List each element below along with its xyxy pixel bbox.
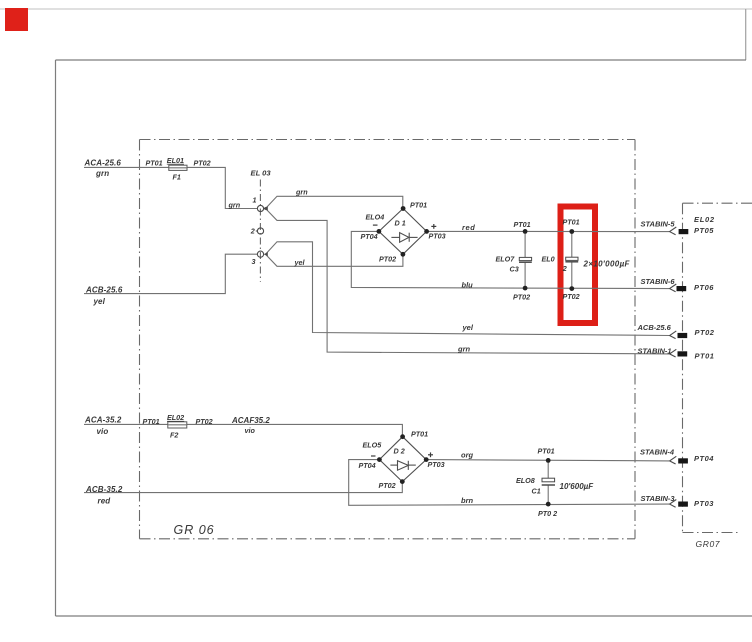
wire D1 + output red row bbox=[427, 230, 670, 232]
node PT03 of D2 bbox=[424, 457, 429, 462]
wire ACB-35.2 red input to D2 PT02 bbox=[84, 482, 402, 493]
svg-text:PT02: PT02 bbox=[379, 255, 396, 264]
svg-text:C3: C3 bbox=[510, 265, 519, 274]
svg-text:D 2: D 2 bbox=[394, 447, 405, 456]
terminal PT03 bbox=[678, 502, 688, 507]
svg-text:org: org bbox=[461, 451, 474, 460]
svg-text:vio: vio bbox=[97, 427, 109, 436]
wire capacitor EL08 bottom lead bbox=[547, 486, 549, 505]
svg-text:blu: blu bbox=[462, 280, 474, 289]
svg-text:STABIN-4: STABIN-4 bbox=[640, 448, 675, 457]
node PT03 of D1 bbox=[424, 229, 429, 234]
svg-text:PT0 2: PT0 2 bbox=[538, 509, 557, 518]
node PT01 on red row at EL07 bbox=[523, 229, 528, 234]
diode inside D1 bbox=[391, 236, 399, 238]
wire ACA-35.2 vio input to D2 PT01 bbox=[84, 424, 402, 436]
connector arrow STABIN-3 bbox=[670, 500, 677, 508]
terminal PT02 bbox=[678, 333, 688, 338]
svg-text:10'600µF: 10'600µF bbox=[560, 482, 595, 491]
svg-text:EL0: EL0 bbox=[542, 254, 555, 263]
svg-text:grn: grn bbox=[457, 345, 471, 354]
svg-text:ACB-25.6: ACB-25.6 bbox=[85, 285, 123, 294]
minus sign at D2 PT04 bbox=[371, 455, 376, 457]
wire fork1 upper grn to D1 PT01 bbox=[266, 196, 403, 208]
node PT02 on brn row at EL08 bbox=[546, 502, 551, 507]
capacitor EL06 / C2 (highlighted) bbox=[566, 257, 578, 260]
svg-text:PT01: PT01 bbox=[411, 430, 428, 439]
connector EL03 contact 3 bbox=[257, 251, 263, 257]
node PT02 on blu row at EL07 bbox=[523, 286, 528, 291]
svg-text:STABIN-1: STABIN-1 bbox=[638, 347, 672, 356]
svg-text:C1: C1 bbox=[532, 487, 541, 496]
connector arrow STABIN-4 bbox=[670, 456, 677, 464]
svg-text:grn: grn bbox=[95, 169, 109, 178]
svg-text:EL02: EL02 bbox=[167, 413, 184, 422]
connector arrow STABIN-5 bbox=[670, 227, 677, 235]
svg-text:PT02: PT02 bbox=[563, 292, 580, 301]
node PT01 of D1 bbox=[401, 206, 406, 211]
minus sign at D1 PT04 bbox=[373, 224, 378, 226]
wire capacitor EL07 bottom lead bbox=[524, 262, 526, 288]
svg-text:STABIN-5: STABIN-5 bbox=[641, 220, 676, 229]
svg-text:PT02: PT02 bbox=[196, 417, 213, 426]
svg-text:D 1: D 1 bbox=[395, 219, 406, 228]
wire D1 - output to blu row bbox=[351, 231, 669, 288]
wire capacitor EL06 top lead bbox=[571, 232, 573, 258]
wire fork1 lower grn to STABIN-1 row bbox=[266, 209, 669, 354]
svg-text:ACA-35.2: ACA-35.2 bbox=[84, 416, 122, 425]
wire ACA-25.6 grn input bbox=[84, 167, 257, 208]
svg-text:ELO4: ELO4 bbox=[366, 213, 385, 222]
svg-text:PT01: PT01 bbox=[410, 201, 427, 210]
svg-text:ELO8: ELO8 bbox=[516, 476, 535, 485]
svg-text:PT02: PT02 bbox=[194, 158, 211, 167]
svg-text:red: red bbox=[462, 223, 475, 232]
svg-text:PT04: PT04 bbox=[359, 461, 376, 470]
svg-text:PT01: PT01 bbox=[538, 446, 555, 455]
connector EL03 contact 1 bbox=[257, 205, 266, 211]
wire fork3 upper yel to ACB-25.6 row bbox=[266, 242, 669, 336]
svg-text:PT02: PT02 bbox=[379, 481, 396, 490]
svg-text:PT03: PT03 bbox=[429, 232, 446, 241]
connector EL03 contact 2 bbox=[256, 228, 264, 234]
svg-text:F2: F2 bbox=[170, 431, 178, 440]
red highlight box around capacitor EL06 bbox=[561, 207, 596, 324]
wire ACB-25.6 yel input bbox=[84, 254, 257, 293]
svg-text:F1: F1 bbox=[173, 173, 181, 182]
outer drawing border bbox=[56, 59, 747, 61]
svg-text:2: 2 bbox=[562, 264, 567, 273]
connector arrow STABIN-1 bbox=[670, 349, 677, 357]
terminal PT04 bbox=[678, 458, 688, 463]
svg-text:PT01: PT01 bbox=[563, 218, 580, 227]
node PT02 of D1 bbox=[401, 252, 406, 257]
svg-text:2: 2 bbox=[250, 227, 255, 236]
svg-text:PT02: PT02 bbox=[513, 293, 530, 302]
terminal PT06 bbox=[677, 286, 687, 291]
capacitor EL08 / C1 bbox=[542, 478, 555, 482]
terminal PT01 bbox=[678, 351, 688, 356]
svg-text:red: red bbox=[98, 497, 112, 506]
plus sign at D1 PT03 bbox=[431, 224, 436, 229]
svg-text:GR 06: GR 06 bbox=[174, 523, 215, 537]
wire D2 + output org row bbox=[426, 460, 669, 461]
svg-text:grn: grn bbox=[228, 200, 241, 209]
node PT02 on blu row at EL06 bbox=[569, 286, 574, 291]
svg-text:ACA-25.6: ACA-25.6 bbox=[84, 158, 122, 167]
svg-text:PT02: PT02 bbox=[695, 328, 715, 337]
node PT04 of D1 bbox=[377, 229, 382, 234]
plus sign at D2 PT03 bbox=[428, 452, 433, 457]
svg-text:GR07: GR07 bbox=[696, 539, 721, 549]
svg-text:PT01: PT01 bbox=[143, 417, 160, 426]
node PT01 on org row at EL08 bbox=[546, 458, 551, 463]
bridge rectifier D2 (EL05) diamond bbox=[379, 437, 426, 482]
svg-text:PT01: PT01 bbox=[146, 158, 163, 167]
svg-text:ACB-25.6: ACB-25.6 bbox=[637, 323, 672, 332]
GR07 terminal strip boundary (dash-dot) bbox=[683, 203, 752, 532]
node PT01 on red row at EL06 bbox=[569, 229, 574, 234]
svg-text:STABIN-3: STABIN-3 bbox=[641, 494, 676, 503]
svg-text:STABIN-6: STABIN-6 bbox=[641, 277, 676, 286]
wire capacitor EL07 top lead bbox=[524, 231, 526, 257]
svg-text:PT05: PT05 bbox=[694, 226, 714, 235]
svg-text:PT03: PT03 bbox=[694, 499, 714, 508]
wire capacitor EL08 top lead bbox=[547, 460, 549, 478]
svg-text:PT03: PT03 bbox=[428, 460, 445, 469]
svg-text:yel: yel bbox=[294, 258, 306, 267]
node PT01 of D2 bbox=[400, 434, 405, 439]
svg-text:PT04: PT04 bbox=[694, 454, 714, 463]
fuse EL02 / F2 bbox=[168, 422, 187, 428]
capacitor EL07 / C3 bbox=[519, 257, 531, 260]
diode inside D2 bbox=[390, 464, 397, 466]
svg-text:ELO7: ELO7 bbox=[496, 254, 516, 263]
node PT04 of D2 bbox=[377, 457, 382, 462]
svg-text:brn: brn bbox=[461, 496, 474, 505]
red calibration square top-left bbox=[5, 8, 28, 31]
faint paper edge line top bbox=[0, 8, 752, 10]
svg-text:PT04: PT04 bbox=[361, 232, 378, 241]
paper edge vertical top right bbox=[745, 9, 747, 60]
wire capacitor EL06 bottom lead bbox=[571, 262, 573, 289]
terminal PT05 bbox=[679, 229, 689, 234]
node PT02 of D2 bbox=[400, 479, 405, 484]
wire D2 - output to brn row bbox=[349, 460, 670, 506]
svg-text:EL 03: EL 03 bbox=[251, 168, 272, 177]
svg-text:ACB-35.2: ACB-35.2 bbox=[85, 485, 123, 494]
svg-text:PT01: PT01 bbox=[695, 352, 715, 361]
GR06 dashed-dot boundary box bbox=[140, 140, 636, 539]
wire fork3 lower yel to D1 PT02 bbox=[266, 254, 403, 266]
svg-text:PT06: PT06 bbox=[694, 283, 714, 292]
fuse EL01 / F1 bbox=[169, 165, 187, 170]
svg-text:EL01: EL01 bbox=[167, 156, 184, 165]
svg-text:ACAF35.2: ACAF35.2 bbox=[231, 416, 270, 425]
bridge rectifier D1 (EL04) diamond bbox=[379, 209, 427, 255]
EL03 connector centre line (dash-dot) bbox=[259, 180, 261, 282]
svg-text:vio: vio bbox=[245, 426, 256, 435]
svg-text:yel: yel bbox=[462, 323, 474, 332]
svg-text:grn: grn bbox=[295, 187, 308, 196]
svg-text:2×10'000µF: 2×10'000µF bbox=[583, 259, 631, 268]
connector arrow ACB-25.6 bbox=[670, 331, 677, 339]
svg-text:ELO5: ELO5 bbox=[363, 441, 383, 450]
connector arrow STABIN-6 bbox=[670, 284, 677, 292]
svg-text:3: 3 bbox=[252, 257, 256, 266]
svg-text:1: 1 bbox=[253, 195, 257, 204]
svg-text:PT01: PT01 bbox=[514, 220, 531, 229]
svg-text:EL02: EL02 bbox=[694, 215, 715, 224]
svg-text:yel: yel bbox=[93, 297, 106, 306]
